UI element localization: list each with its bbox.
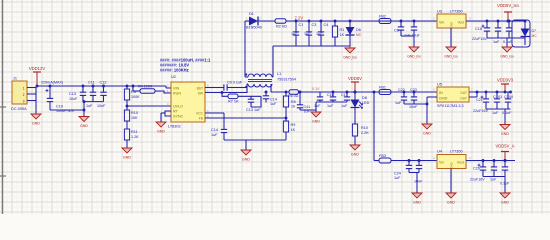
- wire C6C7 rail: [401, 35, 414, 37]
- wire 3v3 gnd drop: [504, 109, 506, 125]
- svg-text:C10: C10: [56, 105, 63, 109]
- junction vdd3v3: [504, 91, 507, 94]
- svg-text:C12: C12: [100, 81, 107, 85]
- wire U2 gnd stem2: [160, 113, 162, 122]
- wire U5 gnd pin: [427, 96, 437, 98]
- junction FB node: [285, 117, 288, 120]
- svg-text:C16: C16: [327, 93, 334, 97]
- svg-text:Vin: Vin: [439, 161, 444, 165]
- ferrite bead FB3: [379, 154, 391, 163]
- ground GND U5: [422, 124, 432, 136]
- voltage regulator U4 LT7350: [433, 150, 471, 169]
- svg-text:1uF: 1uF: [270, 102, 277, 106]
- junction C17: [346, 91, 349, 94]
- junction D6: [349, 20, 352, 23]
- wire primary left: [246, 84, 248, 93]
- annotation note line1: [160, 58, 211, 63]
- power VDD5V: [348, 76, 362, 92]
- wire R4 to RUN: [155, 91, 171, 93]
- ground GND U4: [446, 193, 456, 205]
- power VDD5V_A: [495, 144, 514, 161]
- svg-text:C3: C3: [312, 23, 317, 27]
- wire caps gnd rail: [83, 101, 104, 103]
- J1 pin 1 wire: [27, 87, 36, 89]
- wire UVLO: [127, 105, 171, 107]
- resistor R1 1K: [332, 26, 344, 37]
- wire R1 bot: [334, 37, 336, 46]
- svg-text:R8: R8: [291, 100, 296, 104]
- wire R3 top: [126, 86, 128, 89]
- svg-text:C4: C4: [324, 23, 329, 27]
- svg-text:OUT: OUT: [460, 97, 467, 101]
- svg-text:OUT: OUT: [460, 91, 467, 95]
- svg-text:10nF: 10nF: [409, 105, 418, 109]
- junction C1: [295, 20, 298, 23]
- ground GND divider: [122, 148, 132, 160]
- svg-text:BST: BST: [197, 87, 203, 91]
- svg-text:C13 1uF: C13 1uF: [246, 108, 261, 112]
- svg-text:10nF: 10nF: [97, 104, 106, 108]
- resistor R10b 2.2K: [352, 124, 369, 136]
- wire bottom gnd drop: [504, 177, 506, 194]
- junction C10 gnd: [83, 109, 86, 112]
- J1 pin 3 wire: [27, 100, 36, 102]
- svg-text:R4 100K: R4 100K: [138, 85, 153, 89]
- capacitor C22 1uF: [395, 88, 407, 105]
- ground GND_iso top: [343, 46, 357, 60]
- ground GND U2: [156, 122, 166, 134]
- svg-text:Vout: Vout: [458, 21, 464, 25]
- wire SW: [205, 92, 247, 94]
- junction C27: [493, 159, 496, 162]
- capacitor C101 1uF: [492, 92, 502, 115]
- junction R8 top: [285, 91, 288, 94]
- svg-text:GND: GND: [312, 120, 320, 124]
- svg-text:GND_iso: GND_iso: [444, 55, 458, 59]
- svg-text:10uF: 10uF: [69, 97, 78, 101]
- wire fb3 left: [374, 160, 379, 162]
- wire R1 top: [334, 21, 336, 26]
- junction u5 gnd rail: [426, 103, 429, 106]
- capacitor C17 1uF: [341, 92, 350, 108]
- svg-text:GND: GND: [351, 153, 359, 157]
- svg-text:GND: GND: [157, 130, 165, 134]
- capacitor C12 10nF: [97, 81, 107, 109]
- wire C41 gnd: [300, 109, 316, 111]
- svg-text:2: 2: [23, 93, 25, 97]
- junction C16: [332, 91, 335, 94]
- junction C25: [418, 159, 421, 162]
- svg-text:C100: C100: [504, 95, 513, 99]
- junction C18: [486, 20, 489, 23]
- svg-text:10K: 10K: [131, 116, 138, 120]
- svg-text:D6: D6: [356, 28, 361, 32]
- capacitor C10 100uF 50V: [46, 86, 75, 113]
- svg-text:U4: U4: [437, 150, 442, 154]
- svg-text:1uF: 1uF: [490, 178, 497, 182]
- capacitor C1 1uF: [291, 21, 303, 46]
- svg-text:R11: R11: [131, 130, 138, 134]
- junction C19: [497, 20, 500, 23]
- svg-text:VDD3V3: VDD3V3: [497, 78, 514, 83]
- capacitor C16 1uF: [327, 92, 336, 108]
- svg-text:GND: GND: [447, 201, 455, 205]
- capacitor C25 10nF: [414, 161, 423, 184]
- svg-text:750317504: 750317504: [277, 78, 296, 82]
- svg-text:VCC: VCC: [196, 112, 204, 116]
- wire C10 gnd run: [50, 109, 84, 111]
- capacitor C3 1uF: [304, 21, 316, 46]
- junction UVLO node: [126, 105, 129, 108]
- svg-text:1uF: 1uF: [341, 104, 348, 108]
- wire c24 rail: [409, 172, 419, 174]
- svg-text:C14: C14: [270, 98, 277, 102]
- svg-text:LED: LED: [362, 101, 370, 105]
- capacitor C14 1uF: [211, 128, 227, 140]
- svg-text:C18: C18: [475, 27, 482, 31]
- wire U3 gnd: [450, 28, 452, 47]
- wire R7 to C13: [238, 95, 261, 97]
- svg-text:1uF: 1uF: [492, 111, 499, 115]
- wire D6 bot: [349, 35, 351, 46]
- capacitor C20 0.1uF: [503, 21, 513, 44]
- wire rail gnd drop: [506, 38, 508, 47]
- svg-text:100K: 100K: [131, 95, 140, 99]
- ground GND_iso right: [500, 47, 514, 59]
- svg-text:VIN: VIN: [173, 87, 179, 91]
- wire 3v3 cap rail: [486, 108, 511, 110]
- ground GND bottom right: [500, 193, 510, 205]
- svg-text:R10: R10: [361, 126, 368, 130]
- junction R1: [334, 20, 337, 23]
- capacitor C21 22uF: [473, 92, 489, 113]
- svg-text:R10: R10: [131, 111, 138, 115]
- svg-text:GND: GND: [413, 201, 421, 205]
- svg-text:1uF: 1uF: [304, 32, 311, 36]
- capacitor C4 1uF: [316, 21, 328, 46]
- svg-text:U2: U2: [171, 75, 176, 79]
- junction C101: [496, 91, 499, 94]
- power VDD12V: [29, 66, 45, 86]
- capacitor C6 1uF: [394, 21, 404, 36]
- junction vdd5v_a: [504, 159, 507, 162]
- wire output start: [271, 91, 289, 93]
- svg-text:D8: D8: [362, 96, 367, 100]
- capacitor C41 1uF: [297, 92, 311, 114]
- wire R8-R9: [285, 107, 287, 121]
- svg-text:C21: C21: [476, 98, 483, 102]
- wire bottom rail: [391, 160, 437, 162]
- svg-text:GND_iso: GND_iso: [343, 56, 357, 60]
- svg-text:GND: GND: [123, 156, 131, 160]
- wire J1 pins 2-3 down: [35, 88, 37, 115]
- svg-text:0.1uF: 0.1uF: [502, 111, 512, 115]
- svg-text:RT: RT: [173, 110, 179, 114]
- junction gnd rail: [83, 100, 86, 103]
- resistor R8 1K: [283, 96, 296, 109]
- ferrite bead FB2: [379, 15, 391, 24]
- svg-text:C101: C101: [493, 95, 502, 99]
- svg-text:1uF: 1uF: [327, 104, 334, 108]
- transformer L1 750317504: [245, 72, 296, 88]
- wire C6C7 gnd: [413, 36, 415, 47]
- wire R4 left: [132, 86, 134, 91]
- wire C9 to primary: [232, 87, 247, 89]
- junction C13: [82, 85, 85, 88]
- junction C12: [102, 85, 105, 88]
- wire U3 out: [466, 20, 524, 22]
- svg-text:GND: GND: [242, 158, 250, 162]
- svg-text:2.2K: 2.2K: [361, 131, 369, 135]
- svg-text:GND_iso: GND_iso: [500, 55, 514, 59]
- svg-text:U5: U5: [437, 83, 442, 87]
- junction C10: [49, 85, 52, 88]
- svg-text:C26: C26: [473, 167, 480, 171]
- junction C4: [320, 20, 323, 23]
- capacitor C24 1uF: [394, 161, 412, 181]
- ground GND 3v3: [500, 125, 510, 137]
- wire D1 anode: [245, 20, 249, 22]
- svg-text:GND: GND: [450, 161, 454, 169]
- svg-text:SW: SW: [198, 92, 204, 96]
- svg-text:B1N5040: B1N5040: [246, 26, 262, 30]
- wire VCC: [205, 112, 224, 114]
- svg-text:Vout: Vout: [457, 161, 464, 165]
- svg-text:VDD5V: VDD5V: [348, 76, 362, 81]
- wire cap rail u3b: [524, 38, 526, 45]
- wire primary left h: [247, 83, 248, 85]
- wire caps rail u5: [404, 103, 427, 105]
- resistor R6 0R: [288, 90, 299, 99]
- wire U5 out: [469, 91, 511, 93]
- wire R4 left2: [133, 90, 140, 92]
- svg-text:D1: D1: [249, 12, 254, 16]
- svg-text:RUN: RUN: [173, 92, 181, 96]
- svg-text:D7: D7: [532, 29, 537, 33]
- net 7.2V: [295, 16, 304, 21]
- diode D6 TVS: [346, 27, 362, 37]
- junction C7: [413, 20, 416, 23]
- capacitor C7 10uF: [404, 21, 421, 38]
- ground GND caps: [79, 117, 89, 129]
- capacitor C14 snubber 1uF: [263, 92, 277, 106]
- svg-text:UVLO: UVLO: [173, 105, 183, 109]
- junction C100: [509, 91, 512, 94]
- wire R9 bot: [285, 132, 287, 140]
- resistor R3 100K: [124, 89, 140, 100]
- annotation note line2: [160, 63, 189, 68]
- svg-text:C17: C17: [341, 93, 348, 97]
- wire secondary right: [272, 76, 273, 78]
- capacitor C15 1uF: [314, 92, 323, 108]
- wire fb sense: [205, 117, 286, 119]
- svg-text:SPX1117M3-3.3: SPX1117M3-3.3: [437, 104, 464, 108]
- svg-text:22uF16V: 22uF16V: [470, 178, 485, 182]
- capacitor C11 1uF: [86, 81, 96, 109]
- svg-text:1uF: 1uF: [394, 176, 401, 180]
- resistor R11 1.2K: [124, 129, 139, 140]
- svg-text:1K: 1K: [291, 105, 296, 109]
- wire R10-R11: [126, 121, 128, 129]
- svg-text:1K: 1K: [340, 33, 345, 37]
- resistor R10 10K: [124, 110, 138, 121]
- wire R3-R10: [126, 100, 128, 110]
- svg-text:R7 1K: R7 1K: [228, 100, 239, 104]
- junction R3 top: [126, 85, 129, 88]
- wire gnd_iso rail: [273, 45, 350, 47]
- svg-text:GND: GND: [501, 132, 509, 136]
- svg-text:GND: GND: [439, 97, 448, 101]
- svg-text:C22: C22: [398, 88, 405, 92]
- svg-text:22uF16V: 22uF16V: [473, 109, 489, 113]
- wire gnd drop mid: [245, 140, 247, 150]
- svg-text:1: 1: [23, 87, 25, 91]
- svg-text:C6: C6: [394, 29, 399, 33]
- junction: [36, 85, 39, 88]
- wire LED-R10: [354, 108, 356, 125]
- junction branch down: [373, 91, 376, 94]
- wire R10b gnd: [354, 136, 356, 145]
- svg-text:GND: GND: [80, 124, 88, 128]
- wire D7 bot: [524, 37, 526, 46]
- svg-text:C24: C24: [394, 172, 401, 176]
- wire u4 out: [466, 160, 515, 162]
- ground GND bottom left: [412, 193, 422, 205]
- junction C24: [408, 159, 411, 162]
- wire secondary right up: [272, 46, 274, 77]
- power VDD5V_iso: [497, 3, 519, 21]
- svg-text:J1: J1: [13, 77, 17, 81]
- capacitor C28 0.1uF: [500, 161, 510, 186]
- svg-text:GND: GND: [32, 122, 40, 126]
- svg-text:5.1V: 5.1V: [312, 87, 320, 91]
- wire SW up: [246, 84, 248, 93]
- ground GND J1: [31, 114, 41, 126]
- wire R7 branch: [222, 93, 228, 97]
- svg-text:1uF: 1uF: [211, 133, 218, 137]
- wire caps rail mid: [316, 101, 347, 103]
- svg-text:C41: C41: [304, 105, 311, 109]
- net 5.1V: [312, 87, 320, 91]
- svg-text:Vin: Vin: [439, 21, 444, 25]
- junction C26: [482, 159, 485, 162]
- capacitor C18 22uF: [472, 21, 490, 41]
- svg-text:R2 0Ω: R2 0Ω: [276, 25, 287, 29]
- svg-text:SYNC: SYNC: [173, 115, 184, 119]
- svg-text:GND: GND: [501, 201, 509, 205]
- svg-text:FB2: FB2: [379, 15, 386, 19]
- junction C20: [508, 20, 511, 23]
- annotation note line3: [160, 68, 189, 73]
- diode D7 TVS: [512, 20, 537, 47]
- junction C28: [504, 159, 507, 162]
- wire main input rail: [36, 85, 166, 87]
- junction C6: [400, 20, 403, 23]
- junction C11: [92, 85, 95, 88]
- junction C3: [308, 20, 311, 23]
- wire bottom cap rail: [483, 176, 505, 178]
- wire LED top: [354, 92, 356, 100]
- svg-text:C9 0.1uF: C9 0.1uF: [227, 81, 243, 85]
- wire C13 return: [251, 96, 261, 107]
- junction R4: [132, 85, 135, 88]
- svg-text:GND_iso: GND_iso: [407, 55, 421, 59]
- svg-text:GND: GND: [450, 21, 454, 29]
- svg-text:1uF: 1uF: [86, 104, 93, 108]
- wire U5 out2 up: [476, 92, 478, 97]
- wire VIN: [166, 87, 171, 89]
- wire VIN bend: [165, 86, 167, 88]
- wire U5 out2: [469, 96, 477, 98]
- wire VCC down: [223, 113, 225, 128]
- svg-text:LT8302: LT8302: [168, 125, 181, 129]
- svg-text:MC: MC: [356, 33, 362, 37]
- svg-text:DC-005A: DC-005A: [11, 107, 27, 111]
- resistor R2 0R: [275, 19, 287, 29]
- junction u5 outs: [476, 91, 479, 94]
- label 220mA: [41, 81, 63, 85]
- svg-text:MC: MC: [532, 34, 538, 38]
- wire C14 rail: [224, 139, 286, 141]
- svg-text:U3: U3: [437, 10, 442, 14]
- wire c24 gnd drop: [416, 173, 418, 194]
- svg-text:C14: C14: [211, 128, 218, 132]
- wire U2 gnd stem: [161, 112, 165, 114]
- svg-text:#####: 100KHz: #####: 100KHz: [160, 68, 189, 73]
- wire D6 top: [349, 21, 351, 27]
- svg-text:R9: R9: [291, 123, 296, 127]
- capacitor C19 1uF: [493, 21, 501, 44]
- resistor R4 100K: [138, 85, 155, 94]
- wire U2 gnd pins: [165, 111, 171, 116]
- svg-text:3: 3: [23, 100, 25, 104]
- wire R11 to gnd: [126, 140, 128, 148]
- wire secondary riser: [244, 21, 246, 77]
- svg-text:R1: R1: [340, 28, 345, 32]
- sheet border: [0, 0, 6, 214]
- wire u4 gnd: [450, 169, 452, 194]
- svg-text:1uF: 1uF: [316, 32, 323, 36]
- svg-text:220mA(MAX): 220mA(MAX): [41, 81, 63, 85]
- svg-text:22uF16V: 22uF16V: [472, 37, 488, 41]
- voltage regulator U5 SPX1117: [433, 83, 473, 109]
- junction C22: [403, 91, 406, 94]
- ground GND_iso 2: [407, 47, 421, 59]
- ground GND mid caps: [311, 112, 321, 124]
- power VDD3V3: [497, 78, 514, 93]
- svg-text:C13: C13: [69, 92, 76, 96]
- junction vdd5v: [354, 91, 357, 94]
- junction SW branch: [221, 91, 224, 94]
- wire BST: [205, 87, 219, 89]
- wire D1-R2: [258, 20, 275, 22]
- capacitor C26 22uF: [470, 161, 486, 182]
- svg-text:1uF: 1uF: [493, 40, 500, 44]
- diode D1 B1N5040: [246, 12, 262, 30]
- svg-text:LT7350: LT7350: [450, 150, 463, 154]
- svg-text:FB1: FB1: [379, 86, 386, 90]
- op-amp U2 LT8302: [167, 75, 209, 129]
- junction LED: [354, 91, 357, 94]
- svg-text:C23: C23: [410, 88, 417, 92]
- resistor R7 1K: [228, 94, 239, 104]
- wire U5 gnd down: [426, 97, 428, 124]
- svg-text:1uF: 1uF: [291, 32, 298, 36]
- svg-text:C1: C1: [299, 23, 304, 27]
- svg-text:FB3: FB3: [379, 154, 386, 158]
- svg-text:VDD5V_A: VDD5V_A: [495, 144, 514, 149]
- wire to GND2: [83, 102, 85, 117]
